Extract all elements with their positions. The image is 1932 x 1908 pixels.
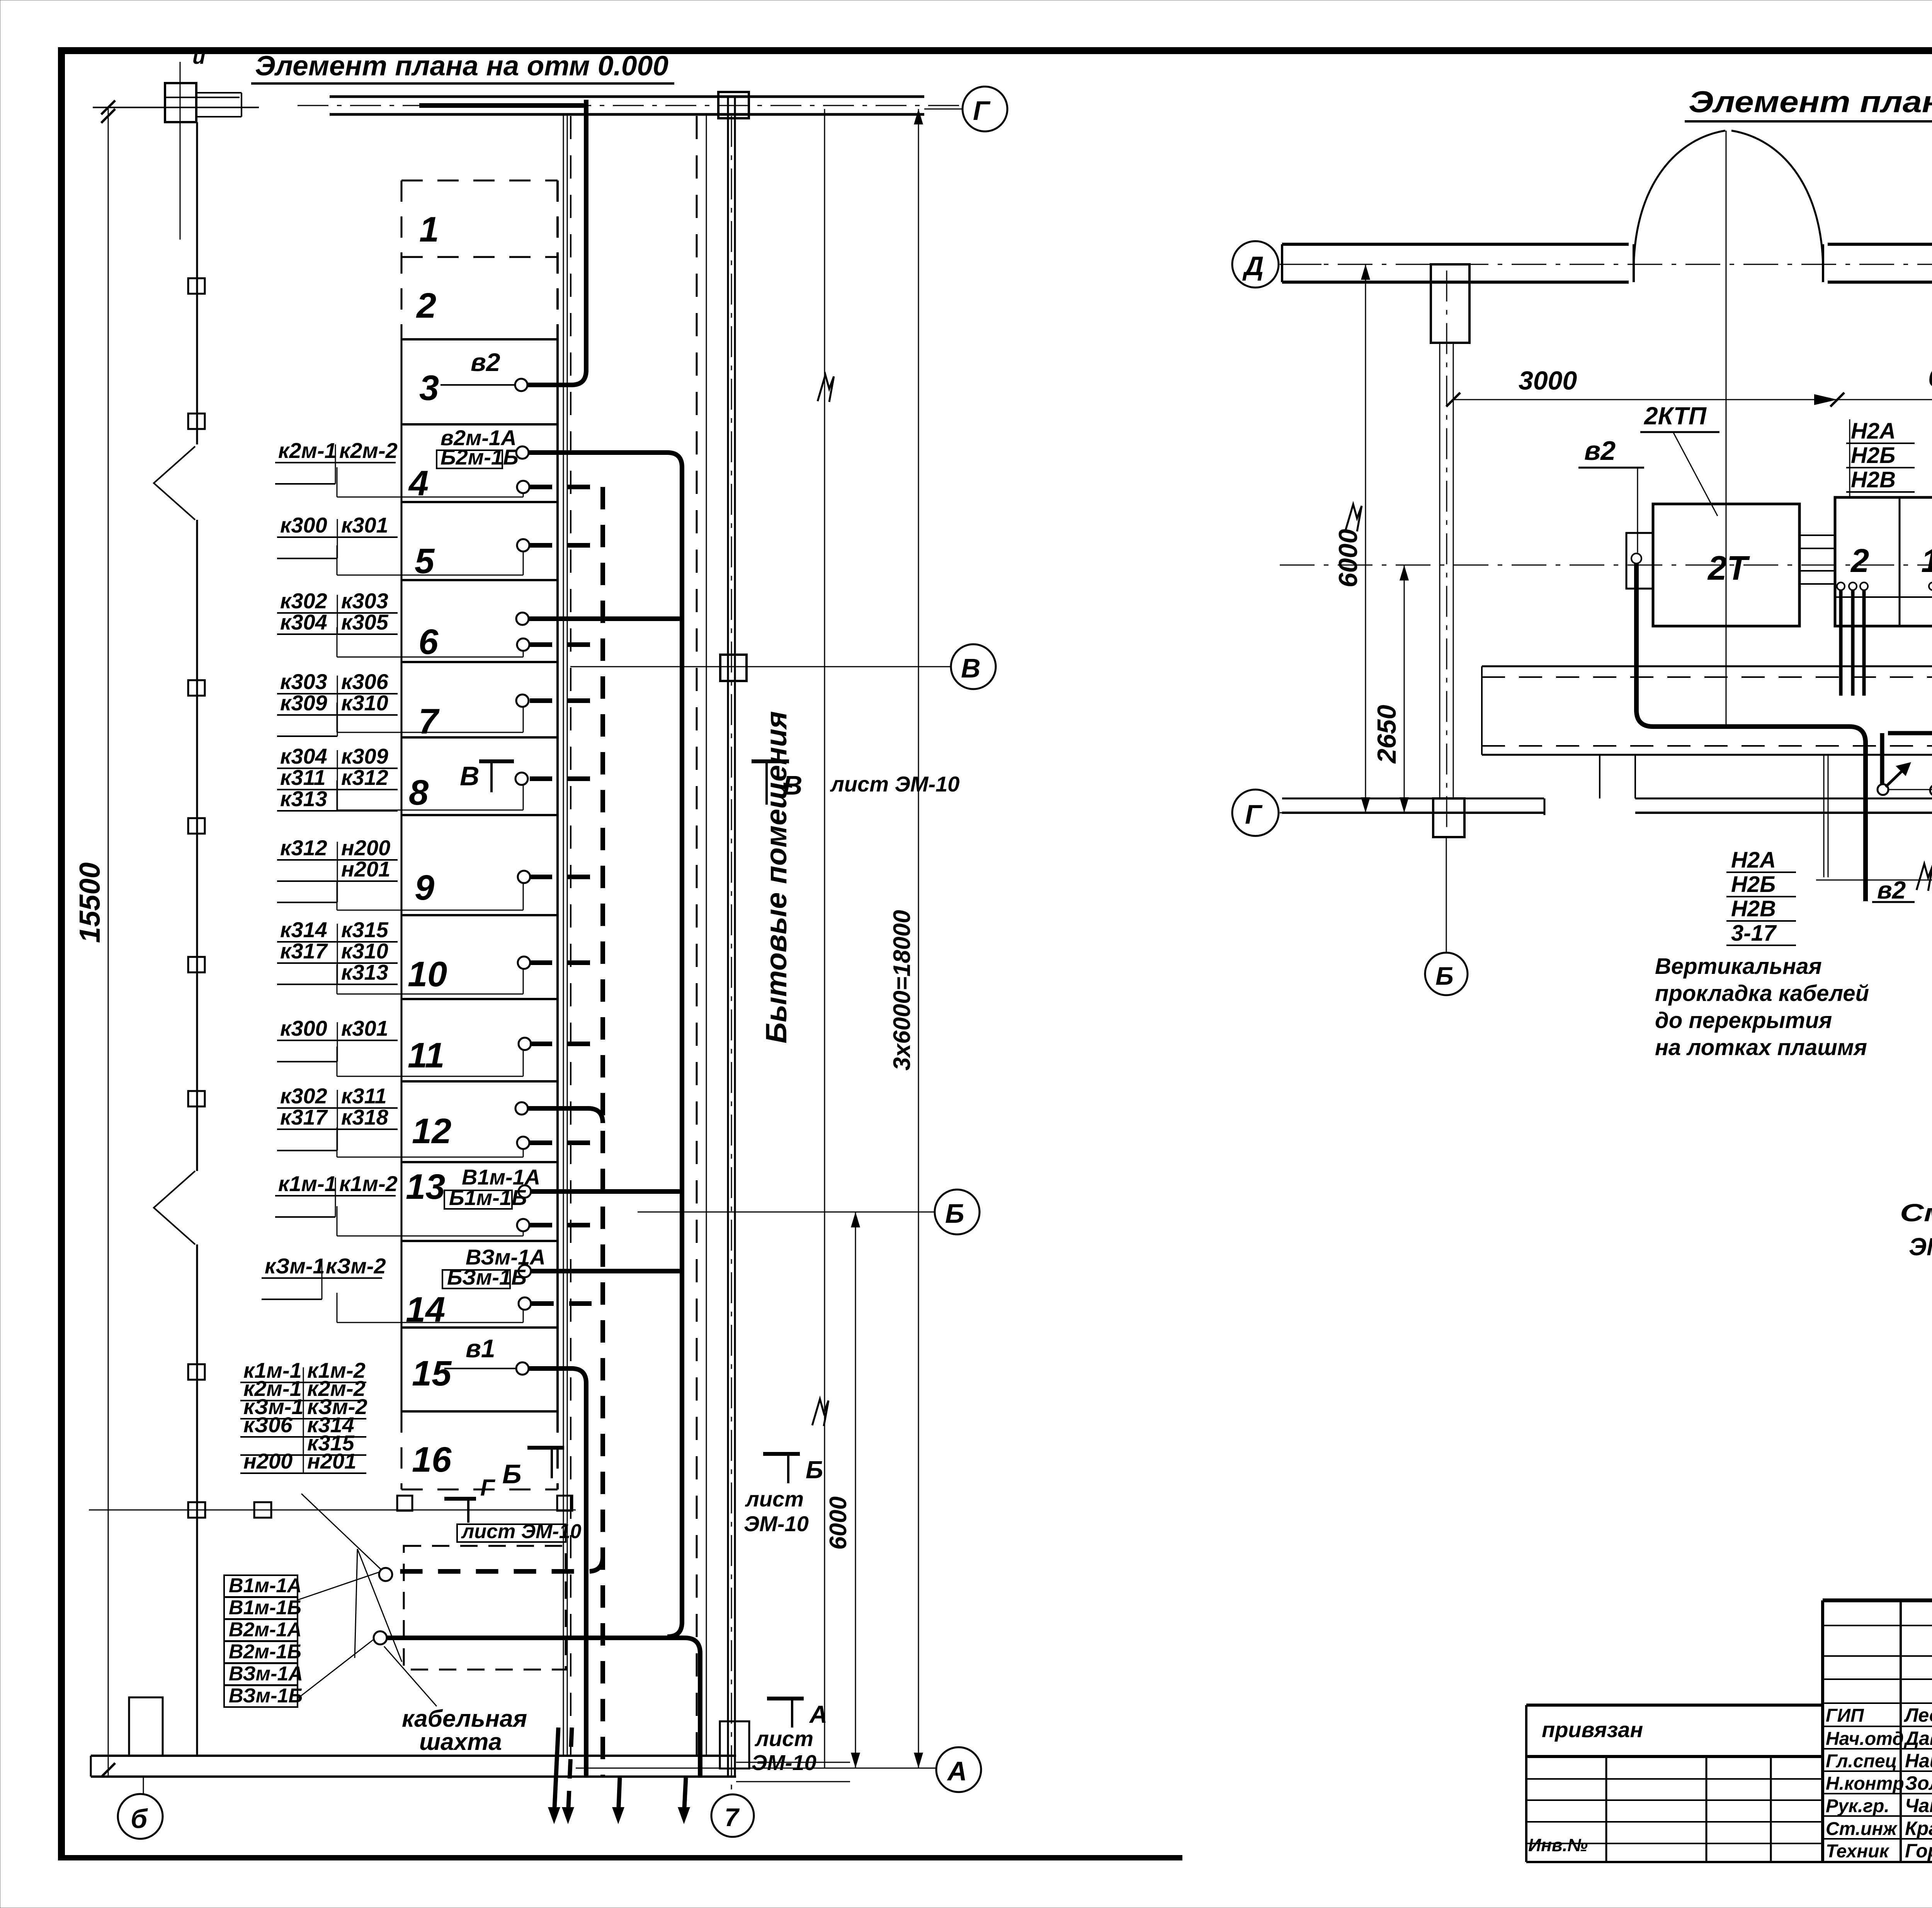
node: room 15 circle в1 bbox=[516, 1362, 529, 1375]
grid circle В bbox=[951, 644, 996, 689]
border frame top bbox=[58, 47, 1932, 54]
label в2 bottom bbox=[1872, 876, 1915, 904]
room bottom border bbox=[401, 1489, 558, 1491]
grid circle Г (top right of left plan) bbox=[963, 87, 1007, 131]
cable stub room9 (dashed) bbox=[530, 875, 603, 879]
section flag Г with boxed лист ЭМ-10 bbox=[444, 1475, 582, 1543]
cable tray band bbox=[1482, 666, 1932, 798]
svg-text:в2: в2 bbox=[1584, 436, 1616, 466]
svg-text:В2м-1А: В2м-1А bbox=[229, 1619, 302, 1641]
label group к302..к305 (room6) bbox=[277, 589, 398, 634]
grid circle Б bbox=[935, 1190, 980, 1234]
grid circle Б (right plan bottom) bbox=[1425, 837, 1468, 995]
node: room 14 circle A bbox=[519, 1265, 531, 1277]
svg-text:6000: 6000 bbox=[1333, 529, 1363, 587]
names table texts bbox=[1826, 1704, 1932, 1862]
wire: room15 leader bbox=[444, 1368, 516, 1369]
room divider 13/14 bbox=[401, 1240, 558, 1242]
column on corridor wall at top bbox=[718, 92, 749, 118]
svg-text:к301: к301 bbox=[341, 1016, 388, 1040]
room divider 9/10 bbox=[401, 914, 558, 916]
svg-text:ВЗм-1Б: ВЗм-1Б bbox=[229, 1685, 303, 1707]
leader fan to shaft labels bbox=[298, 1549, 437, 1706]
svg-text:н200: н200 bbox=[243, 1449, 293, 1473]
svg-text:Элемент плана на отм 0 000: Элемент плана на отм 0 000 bbox=[1689, 85, 1932, 119]
svg-text:Г: Г bbox=[1245, 799, 1263, 829]
svg-text:3: 3 bbox=[419, 368, 439, 408]
room divider 2/3 bbox=[401, 338, 558, 340]
svg-text:6000: 6000 bbox=[825, 1496, 852, 1550]
svg-text:к310: к310 bbox=[341, 939, 388, 963]
svg-text:15500: 15500 bbox=[73, 862, 106, 943]
label group к314..к313 (room10) bbox=[277, 917, 398, 984]
svg-text:7: 7 bbox=[418, 702, 440, 741]
label group к312 н200 н201 (room9) bbox=[277, 836, 398, 902]
svg-text:А: А bbox=[947, 1756, 967, 1786]
cable stub room6 (dashed) bbox=[530, 642, 603, 647]
svg-text:7: 7 bbox=[724, 1803, 740, 1831]
cable run C start: room4 to x1765 down (thick) bbox=[529, 453, 682, 1637]
svg-text:к304: к304 bbox=[280, 744, 327, 768]
label group к303..к310 (room7) bbox=[277, 669, 398, 736]
cable stub room5 (dashed) bbox=[530, 543, 603, 548]
grid circle 7 (bottom) bbox=[711, 1794, 754, 1837]
svg-text:к304: к304 bbox=[280, 610, 327, 634]
room divider 3/4 bbox=[401, 423, 558, 426]
svg-text:Н2В: Н2В bbox=[1731, 896, 1776, 921]
wire: leader from stack to wall bbox=[301, 1494, 381, 1569]
border frame bottom bbox=[58, 1855, 1182, 1860]
svg-text:Горстка: Горстка bbox=[1905, 1840, 1932, 1862]
svg-text:Б: Б bbox=[806, 1456, 823, 1484]
top wall centerline bbox=[298, 105, 963, 106]
svg-text:кЗм-2: кЗм-2 bbox=[326, 1254, 386, 1278]
corridor dashed boundary right bbox=[696, 116, 698, 1755]
cable thick solid horizontal to shaft bbox=[387, 1638, 700, 1777]
column at top-left axis bbox=[165, 44, 240, 240]
svg-text:9: 9 bbox=[415, 868, 434, 907]
svg-text:кабельная: кабельная bbox=[402, 1705, 527, 1732]
corridor wall double right bbox=[734, 97, 736, 1777]
svg-text:к303: к303 bbox=[341, 589, 388, 613]
svg-text:привязан: привязан bbox=[1542, 1717, 1643, 1742]
break symbol M lower bbox=[812, 1399, 828, 1426]
svg-text:б: б bbox=[131, 1804, 148, 1834]
top wall centerline bbox=[1280, 264, 1932, 265]
svg-text:к313: к313 bbox=[341, 960, 388, 984]
label В1м-1А / Б1м-1Б (room 13) bbox=[444, 1165, 540, 1210]
room divider 12/13 bbox=[401, 1161, 558, 1163]
node: room 4 circle A bbox=[516, 446, 529, 459]
title: Элемент плана на отм 0.000 bbox=[251, 51, 674, 83]
svg-text:на лотках плашмя: на лотках плашмя bbox=[1655, 1035, 1867, 1060]
cable stub room7 (dashed) bbox=[530, 698, 603, 703]
axis line Б bbox=[638, 1212, 935, 1213]
svg-text:к1м-1: к1м-1 bbox=[278, 1171, 337, 1196]
svg-text:Н2Б: Н2Б bbox=[1851, 443, 1895, 468]
node: circle under block 1 bbox=[1929, 582, 1932, 590]
svg-text:Н2А: Н2А bbox=[1851, 419, 1896, 444]
node: room 3 circle в2 bbox=[515, 379, 527, 391]
column on bottom wall bbox=[129, 1697, 163, 1756]
svg-text:В1м-1Б: В1м-1Б bbox=[229, 1597, 301, 1619]
door swing on left wall (upper) bbox=[154, 446, 195, 520]
svg-text:1: 1 bbox=[419, 210, 439, 249]
room divider 11/12 bbox=[401, 1080, 558, 1083]
svg-text:Д: Д bbox=[1242, 251, 1264, 281]
label stack Н2А Н2Б Н2В bbox=[1846, 419, 1915, 499]
label в2 (room 3) bbox=[471, 348, 500, 376]
note Смотреть совместно с листами bbox=[1900, 1199, 1932, 1261]
svg-text:8: 8 bbox=[409, 773, 429, 812]
node: room 8 circle bbox=[515, 773, 528, 785]
node: room 10 circle bbox=[518, 957, 530, 969]
machine blocks 2|1 (middle) bbox=[1835, 497, 1932, 626]
cable в2 from room3 up to top wall (thick) bbox=[528, 100, 586, 385]
svg-text:Н2А: Н2А bbox=[1731, 848, 1776, 873]
corridor dashed boundary bbox=[570, 116, 571, 1755]
label ВЗм-1А / БЗм-1Б (room 14) bbox=[442, 1245, 546, 1289]
svg-text:14: 14 bbox=[406, 1290, 445, 1329]
left column of right plan bbox=[1431, 264, 1469, 343]
svg-text:прокладка кабелей: прокладка кабелей bbox=[1655, 981, 1869, 1006]
svg-text:к317: к317 bbox=[280, 1105, 328, 1129]
svg-text:2КТП: 2КТП bbox=[1644, 402, 1707, 430]
section flag А with лист ЭМ-10 bbox=[752, 1699, 827, 1775]
centerline of machines row bbox=[1280, 565, 1932, 566]
svg-text:2: 2 bbox=[1850, 543, 1869, 579]
room divider 7/8 bbox=[401, 736, 558, 739]
wire: group-to-room leader steps bbox=[337, 467, 523, 1322]
label group к2м-1 к2м-2 (room4) bbox=[275, 438, 398, 484]
cable exit arrows at bottom bbox=[548, 1728, 690, 1824]
room column left edge bbox=[401, 180, 403, 1489]
grid circle Г (right plan) bbox=[1232, 790, 1279, 836]
cable from room15 down run A lower (thick) bbox=[529, 1368, 586, 1777]
svg-text:3х6000=18000: 3х6000=18000 bbox=[889, 910, 915, 1071]
svg-text:к2м-2: к2м-2 bbox=[339, 438, 398, 463]
svg-text:Нашельский: Нашельский bbox=[1905, 1750, 1932, 1772]
bottom wall of right plan bbox=[1282, 798, 1932, 815]
svg-text:В: В bbox=[460, 761, 480, 791]
cable stub room6 solid bbox=[529, 616, 682, 621]
node: room 13 circle A bbox=[519, 1185, 531, 1198]
corridor wall line a bbox=[563, 114, 564, 1756]
column on corridor wall at bottom bbox=[720, 1721, 749, 1768]
cable slash switch в2 bbox=[1878, 762, 1911, 795]
svg-text:В2м-1Б: В2м-1Б bbox=[229, 1641, 301, 1663]
svg-text:к2м-1: к2м-1 bbox=[278, 438, 337, 463]
label group кЗм-1 кЗм-2 (room14) bbox=[262, 1254, 386, 1299]
svg-text:к306: к306 bbox=[341, 669, 389, 694]
room divider 5/6 bbox=[401, 579, 558, 581]
break symbol М near в2/в1 labels bbox=[1917, 864, 1932, 891]
node: shaft circle 1 bbox=[379, 1568, 392, 1581]
svg-text:лист: лист bbox=[754, 1726, 813, 1751]
svg-text:кЗ06: кЗ06 bbox=[243, 1413, 293, 1437]
grid circle Б (bottom) bbox=[118, 1777, 163, 1839]
svg-text:шахта: шахта bbox=[419, 1729, 502, 1755]
columns on axis Г bottom bbox=[188, 1496, 572, 1518]
dimension 2650 vertical bbox=[1372, 565, 1409, 813]
break symbol M upper bbox=[818, 375, 834, 402]
label group к300 к301 (room5) bbox=[277, 513, 398, 558]
room column right edge bbox=[556, 180, 559, 1489]
bottom wall of left plan bbox=[91, 1756, 850, 1782]
svg-text:Г: Г bbox=[480, 1475, 496, 1501]
svg-text:Чапны: Чапны bbox=[1905, 1795, 1932, 1816]
svg-text:н201: н201 bbox=[307, 1449, 356, 1473]
svg-text:Смотреть совместно с листа: Смотреть совместно с листами bbox=[1900, 1199, 1932, 1227]
svg-text:кЗм-1: кЗм-1 bbox=[265, 1254, 325, 1278]
svg-text:в2: в2 bbox=[1877, 876, 1906, 904]
svg-text:Ст.инж: Ст.инж bbox=[1826, 1819, 1898, 1839]
svg-text:к303: к303 bbox=[280, 669, 327, 694]
room divider 1/2 bbox=[401, 256, 558, 258]
corridor thin wall right bbox=[706, 114, 707, 1756]
svg-text:Кравцова: Кравцова bbox=[1905, 1818, 1932, 1839]
svg-text:к309: к309 bbox=[341, 744, 388, 768]
axis line Д bbox=[1280, 264, 1321, 265]
svg-text:к309: к309 bbox=[280, 691, 327, 715]
wire: run B turn into shaft circle bbox=[392, 1557, 603, 1571]
machine block 2Т (2КТП) bbox=[1653, 504, 1799, 626]
cable shaft dashed box bbox=[404, 1546, 566, 1670]
grid circle Д bbox=[1232, 241, 1279, 288]
right plan top wall bbox=[1282, 244, 1932, 282]
node: room 13 circle B bbox=[517, 1219, 529, 1231]
svg-text:В1м-1А: В1м-1А bbox=[229, 1574, 302, 1597]
node: room 14 circle B bbox=[519, 1297, 531, 1310]
title: Элемент плана на отм 0 000 (right) bbox=[1685, 85, 1932, 121]
corridor wall double left bbox=[727, 97, 729, 1777]
cable stub room10 (dashed) bbox=[530, 960, 603, 965]
svg-text:Б: Б bbox=[945, 1198, 964, 1229]
svg-text:3000: 3000 bbox=[1519, 366, 1577, 395]
svg-text:к312: к312 bbox=[341, 765, 388, 790]
door axis 1 bbox=[1726, 131, 1727, 727]
wire: room3 leader bbox=[440, 384, 515, 386]
match line лист ЭМ-10 bbox=[824, 109, 825, 1768]
room divider 14/15 bbox=[401, 1326, 558, 1329]
dimension 6000 vertical bbox=[1333, 264, 1370, 813]
label stack Н2А..3-17 (bottom left) bbox=[1726, 848, 1796, 946]
svg-text:к311: к311 bbox=[341, 1084, 387, 1108]
svg-text:в1: в1 bbox=[466, 1334, 495, 1363]
svg-text:Давыдов: Давыдов bbox=[1903, 1728, 1932, 1749]
svg-text:А: А bbox=[809, 1700, 827, 1728]
label 2КТП bbox=[1640, 402, 1719, 516]
room divider 8/9 bbox=[401, 814, 558, 816]
label stack к1м..н201 (room16 feeders) bbox=[240, 1358, 367, 1473]
label group к300 к301 (room11) bbox=[277, 1016, 398, 1062]
svg-text:1: 1 bbox=[1921, 543, 1932, 579]
left building wall with columns bbox=[188, 122, 205, 1756]
svg-text:Рук.гр.: Рук.гр. bbox=[1826, 1796, 1889, 1816]
svg-text:Инв.№: Инв.№ bbox=[1528, 1835, 1588, 1855]
svg-text:Н2В: Н2В bbox=[1851, 467, 1896, 492]
node: circle в2 at 2Т bbox=[1631, 553, 1641, 563]
corridor wall line b bbox=[567, 114, 568, 1756]
svg-text:2: 2 bbox=[416, 286, 436, 325]
svg-text:лист ЭМ-10: лист ЭМ-10 bbox=[830, 772, 959, 796]
wall stub below tray bbox=[1824, 755, 1828, 877]
svg-text:к315: к315 bbox=[341, 917, 389, 942]
dimension line 3x6000=18000 (Г-А) bbox=[889, 109, 923, 1768]
door swing on left wall (lower) bbox=[154, 1171, 195, 1244]
border frame left bbox=[58, 47, 65, 1860]
svg-text:к301: к301 bbox=[341, 513, 388, 537]
svg-text:3-17: 3-17 bbox=[1731, 921, 1777, 946]
node: room 12 circle A bbox=[515, 1102, 528, 1115]
room divider 15/16 bbox=[401, 1410, 558, 1413]
node: room 7 circle bbox=[516, 694, 529, 707]
node: room 11 circle bbox=[519, 1038, 531, 1050]
svg-text:к1м-2: к1м-2 bbox=[339, 1171, 398, 1196]
svg-text:к302: к302 bbox=[280, 589, 327, 613]
axis 6 wall verticals bbox=[1440, 271, 1453, 835]
label в2 (right plan) bbox=[1578, 436, 1644, 553]
cable stub room14 (dashed) bbox=[531, 1301, 603, 1306]
node: room 6 circle A bbox=[516, 613, 529, 625]
svg-text:и: и bbox=[192, 44, 206, 68]
svg-text:12: 12 bbox=[412, 1111, 451, 1151]
column at Г axis (left) bbox=[1433, 798, 1464, 837]
nodes: circles under block 2 bbox=[1837, 582, 1868, 590]
svg-text:6: 6 bbox=[418, 622, 439, 662]
svg-text:11: 11 bbox=[408, 1036, 445, 1075]
svg-text:6400: 6400 bbox=[1928, 363, 1932, 392]
svg-text:к318: к318 bbox=[341, 1105, 389, 1129]
label кабельная шахта bbox=[402, 1705, 527, 1755]
svg-text:Гл.спец: Гл.спец bbox=[1826, 1751, 1897, 1772]
node: room 5 circle bbox=[517, 539, 529, 551]
axis 7 centerline dash-dot bbox=[731, 116, 732, 1793]
node: room 4 circle B bbox=[517, 481, 529, 493]
node: room 9 circle bbox=[518, 871, 530, 883]
svg-text:Б2м-1Б: Б2м-1Б bbox=[440, 445, 519, 469]
svg-text:Н2Б: Н2Б bbox=[1731, 872, 1776, 897]
svg-text:Нач.отд: Нач.отд bbox=[1826, 1729, 1904, 1749]
label в2м-1А / Б2м-1Б (room 4) bbox=[437, 426, 519, 469]
svg-text:ГИП: ГИП bbox=[1826, 1705, 1864, 1726]
svg-text:лист: лист bbox=[745, 1487, 804, 1511]
cable stub room11 (dashed) bbox=[530, 1042, 603, 1046]
svg-text:Леонов: Леонов bbox=[1904, 1704, 1932, 1726]
svg-text:к312: к312 bbox=[280, 836, 327, 860]
column on corridor wall at axis В bbox=[720, 655, 747, 681]
room top border bbox=[401, 180, 558, 182]
node: room 6 circle B bbox=[517, 638, 529, 651]
break symbol M on dim bbox=[1345, 504, 1362, 531]
cable stub room12 solid to run B bbox=[528, 1108, 603, 1123]
names table rows bbox=[1823, 1625, 1932, 1862]
svg-text:Вертикальная: Вертикальная bbox=[1655, 954, 1822, 979]
svg-text:в2: в2 bbox=[471, 348, 500, 376]
room divider 4/5 bbox=[401, 501, 558, 503]
wall stub right of column bbox=[196, 93, 241, 117]
section flag Б (room 16) bbox=[502, 1448, 564, 1489]
dimension line 15500 (left) bbox=[73, 107, 115, 1777]
svg-text:15: 15 bbox=[412, 1354, 452, 1393]
cable stub room8 (dashed) bbox=[530, 776, 603, 781]
cable in top wall (thick) bbox=[419, 103, 587, 108]
привязан table bbox=[1526, 1705, 1823, 1862]
title block top edge bbox=[1823, 1598, 1932, 1602]
svg-text:к302: к302 bbox=[280, 1084, 327, 1108]
svg-text:ВЗм-1А: ВЗм-1А bbox=[229, 1663, 303, 1685]
svg-text:н200: н200 bbox=[341, 836, 390, 860]
svg-text:Г: Г bbox=[973, 95, 991, 126]
svg-text:Б: Б bbox=[502, 1459, 522, 1489]
svg-text:В: В bbox=[961, 653, 981, 683]
svg-text:к311: к311 bbox=[280, 765, 326, 790]
grid circle А bbox=[936, 1747, 981, 1792]
cable stub room13 solid bbox=[531, 1189, 682, 1194]
section flag В with лист ЭМ-10 bbox=[752, 761, 959, 805]
cable slash switch в1 bbox=[1930, 763, 1932, 796]
svg-text:13: 13 bbox=[406, 1167, 445, 1207]
cable stub room13 (dashed) bbox=[530, 1223, 603, 1227]
label stack В1м-1А..ВЗм-1Б bbox=[224, 1574, 303, 1707]
svg-text:Б1м-1Б: Б1м-1Б bbox=[449, 1185, 527, 1210]
svg-text:ЭМ-6, ЭС-3: ЭМ-6, ЭС-3 bbox=[1909, 1233, 1932, 1261]
axis line to Г bbox=[924, 109, 963, 110]
connector left of 2Т bbox=[1626, 533, 1653, 589]
cable в2 thick bbox=[1636, 563, 1866, 901]
svg-text:Элемент плана на отм 0.000: Элемент плана на отм 0.000 bbox=[255, 51, 668, 82]
svg-text:ЭМ-10: ЭМ-10 bbox=[744, 1511, 809, 1536]
svg-text:БЗм-1Б: БЗм-1Б bbox=[447, 1265, 527, 1289]
room divider 10/11 bbox=[401, 998, 558, 1000]
svg-text:к300: к300 bbox=[280, 1016, 327, 1040]
note Вертикальная прокладка (left) bbox=[1655, 954, 1869, 1060]
svg-text:к305: к305 bbox=[341, 610, 389, 634]
svg-text:к314: к314 bbox=[280, 917, 327, 942]
bridges 2Т to 2 bbox=[1799, 535, 1835, 584]
svg-text:16: 16 bbox=[412, 1440, 452, 1479]
dimension line 6000 (Б-А) bbox=[825, 1212, 860, 1768]
cable stub room14 solid bbox=[531, 1269, 682, 1273]
section flag В (room 8) bbox=[460, 761, 514, 792]
label group к302..к318 (room12) bbox=[277, 1084, 398, 1151]
label group к304..к313 (room8) bbox=[277, 744, 398, 811]
node: room 12 circle B bbox=[517, 1137, 529, 1149]
svg-text:к310: к310 bbox=[341, 691, 388, 715]
svg-text:к300: к300 bbox=[280, 513, 327, 537]
cable bundle horizontal in tray bbox=[1888, 733, 1932, 759]
dimension 3000 / 6400 horizontal bbox=[1446, 363, 1932, 407]
svg-text:В: В bbox=[783, 770, 803, 800]
wire under boxes bbox=[1889, 789, 1932, 790]
svg-text:до перекрытия: до перекрытия bbox=[1655, 1008, 1832, 1033]
door 1 leaf arcs bbox=[1634, 131, 1823, 282]
node: axis line top-left bbox=[93, 100, 259, 114]
axis Г bottom line bbox=[89, 1510, 576, 1511]
svg-text:Б: Б bbox=[1435, 962, 1454, 990]
svg-text:к313: к313 bbox=[280, 786, 327, 811]
svg-text:Золотарева: Золотарева bbox=[1905, 1772, 1932, 1794]
svg-text:2Т: 2Т bbox=[1707, 549, 1750, 587]
svg-text:10: 10 bbox=[408, 955, 447, 994]
names table verticals bbox=[1823, 1600, 1932, 1862]
top wall of left plan bbox=[330, 97, 924, 114]
cable run B start: room4 dashed to x1560 down bbox=[530, 485, 603, 489]
svg-text:Н.контр: Н.контр bbox=[1826, 1774, 1904, 1794]
axis line Г right bbox=[1280, 812, 1321, 814]
svg-text:н201: н201 bbox=[341, 857, 390, 881]
axis line В bbox=[570, 666, 951, 667]
